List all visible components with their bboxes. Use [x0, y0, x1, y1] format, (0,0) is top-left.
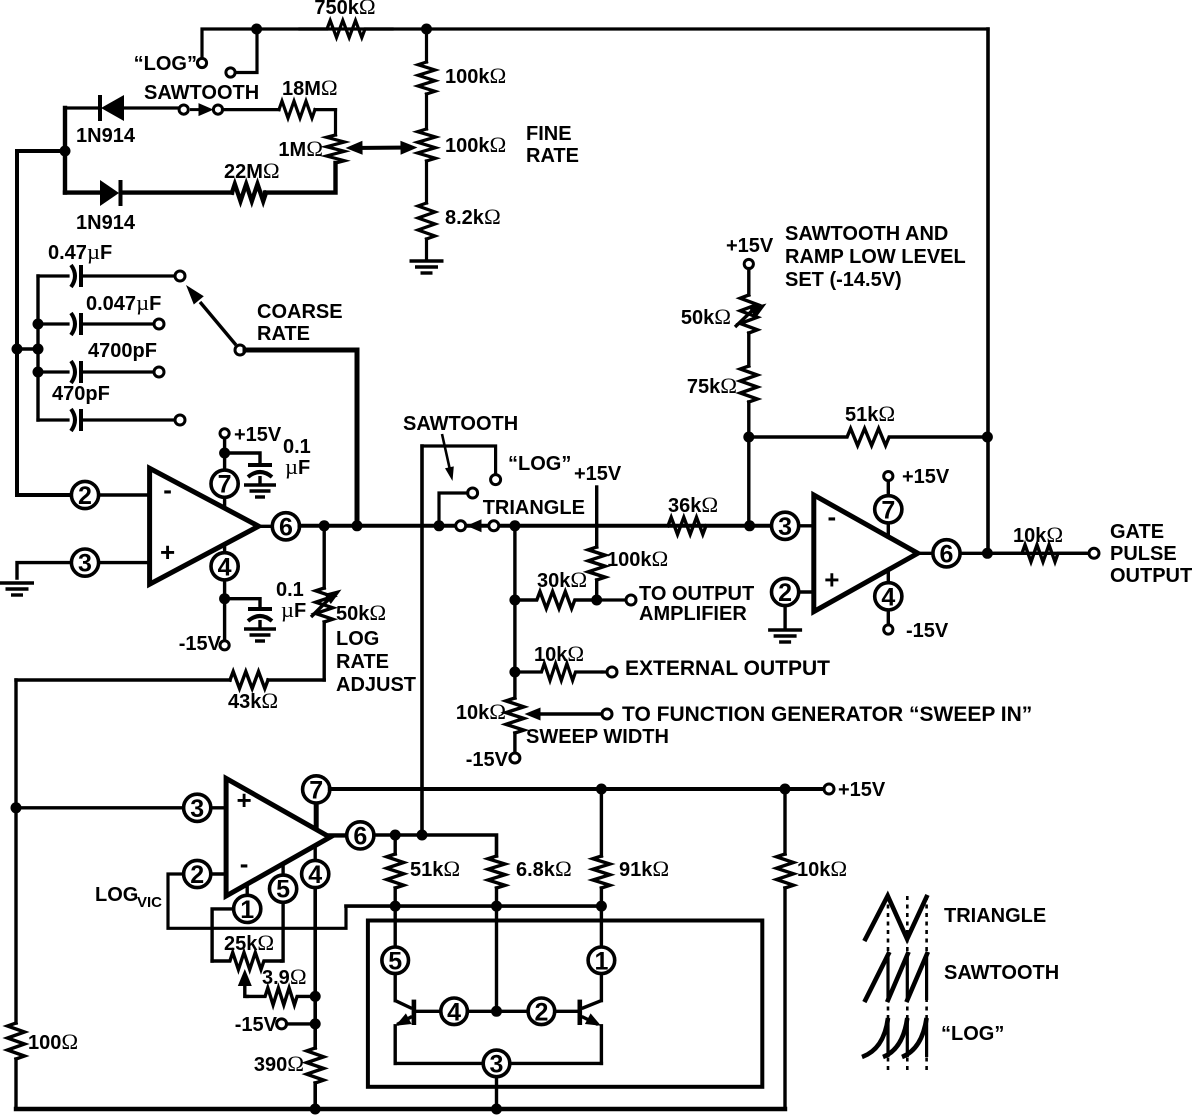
- svg-text:SWEEP WIDTH: SWEEP WIDTH: [526, 726, 669, 748]
- wire capacitor-bank bus vertical: [36, 276, 39, 420]
- wire 51k bottom into pin 5 of array: [394, 906, 397, 947]
- svg-text:10kΩ: 10kΩ: [534, 641, 584, 666]
- svg-text:100kΩ: 100kΩ: [445, 63, 506, 88]
- svg-text:18MΩ: 18MΩ: [282, 75, 338, 100]
- svg-text:ADJUST: ADJUST: [336, 674, 416, 696]
- svg-text:390Ω: 390Ω: [254, 1051, 304, 1076]
- resistor 6.8k&#937;: [488, 856, 505, 888]
- wire between 100k and fine-rate pot: [425, 94, 428, 129]
- capacitor 470pF: [38, 418, 68, 421]
- svg-text:6: 6: [353, 822, 367, 850]
- wire bottom rail: [16, 1107, 785, 1111]
- resistor 10k&#937; (right bank): [783, 789, 786, 854]
- svg-text:51kΩ: 51kΩ: [845, 401, 895, 426]
- svg-text:470pF: 470pF: [52, 383, 110, 405]
- svg-text:6.8kΩ: 6.8kΩ: [516, 856, 572, 881]
- node junction sawtooth switch tap: [434, 520, 445, 531]
- capacitor 0.47uF: [38, 274, 68, 277]
- node junction 51k row left: [743, 432, 754, 443]
- wire base row (y=906) from feedback riser to 91k bottom: [346, 904, 601, 908]
- svg-text:100Ω: 100Ω: [28, 1029, 78, 1054]
- svg-text:TO OUTPUT: TO OUTPUT: [639, 583, 754, 605]
- switch in sawtooth branch (two terminals with arrow): [179, 105, 188, 114]
- wire center column 6.8k down to base node: [495, 906, 498, 1011]
- wire from diode junction to far-left vertical down to op-amp U1 pin 2: [17, 151, 72, 495]
- node junction 91k top: [596, 784, 607, 795]
- switch terminal LOG (upper left): [197, 58, 206, 67]
- svg-text:SET (-14.5V): SET (-14.5V): [785, 269, 902, 291]
- svg-text:1N914: 1N914: [76, 212, 136, 234]
- terminal +15V (ramp low level set): [744, 259, 753, 268]
- node junction U1 V+ bypass: [219, 448, 230, 459]
- svg-text:-15V: -15V: [906, 620, 949, 642]
- svg-text:+15V: +15V: [902, 466, 950, 488]
- node junction 75k column joins main row: [744, 520, 755, 531]
- potentiometer 25k&#937; with wiper arrow: [212, 953, 282, 970]
- pin 7 of U1 with +15V terminal: [223, 438, 226, 509]
- wire +15V feed down to 100k: [595, 487, 598, 547]
- transistor array box: [368, 921, 762, 1087]
- node junction on far-left vertical + tie wire to capacitor bus: [12, 344, 23, 355]
- svg-text:-: -: [163, 474, 172, 504]
- op-amp U1 (integrator): [150, 468, 259, 584]
- node junction 50k log-rate-adjust tap: [319, 520, 330, 531]
- svg-text:RAMP LOW LEVEL: RAMP LOW LEVEL: [785, 246, 966, 268]
- svg-text:-15V: -15V: [466, 749, 509, 771]
- svg-text:SAWTOOTH: SAWTOOTH: [144, 82, 259, 104]
- svg-text:7: 7: [309, 776, 323, 804]
- node junctions on capacitor bus: [33, 319, 44, 330]
- terminal GATE PULSE OUTPUT: [1089, 548, 1099, 558]
- svg-text:6: 6: [940, 540, 954, 568]
- node junction external-output row: [509, 667, 520, 678]
- resistor 51k&#937; (U3 output): [394, 835, 397, 854]
- waveform SAWTOOTH symbol: [865, 954, 888, 1000]
- svg-text:RATE: RATE: [257, 323, 310, 345]
- svg-text:+15V: +15V: [234, 424, 282, 446]
- wire right rail vertical (top corner to gate output node): [986, 29, 990, 553]
- wire 8.2k to ground: [425, 239, 428, 259]
- wire fine-rate column top: [425, 29, 428, 62]
- ground (fine-rate column): [410, 259, 444, 262]
- svg-text:AMPLIFIER: AMPLIFIER: [639, 603, 747, 625]
- node junction 51k row right: [982, 432, 993, 443]
- node junction 51k top (output row): [390, 830, 401, 841]
- node junction 390 ohm bottom: [310, 1104, 321, 1115]
- pin 6 of U3 (output): [330, 833, 347, 837]
- svg-text:4700pF: 4700pF: [88, 340, 157, 362]
- svg-text:100kΩ: 100kΩ: [607, 546, 668, 571]
- node junction 6.8k bottom: [491, 901, 502, 912]
- svg-text:30kΩ: 30kΩ: [537, 567, 587, 592]
- waveform LOG symbol: [862, 1018, 888, 1057]
- pin 4 of U2 with -15V terminal: [887, 570, 890, 625]
- pin 1 of U3 with wire to 25k left end: [245, 884, 248, 896]
- svg-text:OUTPUT: OUTPUT: [1110, 565, 1192, 587]
- svg-text:50kΩ: 50kΩ: [336, 600, 386, 625]
- ground (U1 pin 3): [0, 581, 34, 584]
- svg-text:43kΩ: 43kΩ: [228, 688, 278, 713]
- resistor 100k&#937; (upper, fine-rate column): [418, 62, 435, 94]
- node junction 30k row: [509, 595, 520, 606]
- terminal -15V (U3): [277, 1019, 287, 1029]
- node junction base row center: [491, 1006, 502, 1017]
- pin 3 of U2: [772, 512, 799, 539]
- resistor 18M&#937;: [223, 108, 280, 111]
- switch wiper on main row (triangle selector, two terminals + left arrow): [467, 524, 489, 527]
- wire U2 output to gate pulse resistor: [960, 552, 1089, 555]
- wire far-left vertical (43k row down to bottom rail): [14, 680, 17, 1023]
- svg-text:1MΩ: 1MΩ: [278, 136, 323, 161]
- pin 3 of U3: [184, 794, 211, 821]
- pin 1 of transistor array: [588, 947, 615, 974]
- svg-text:-15V: -15V: [235, 1014, 278, 1036]
- svg-text:10kΩ: 10kΩ: [797, 856, 847, 881]
- svg-text:3: 3: [78, 550, 92, 578]
- node junction 91k bottom: [596, 901, 607, 912]
- svg-text:0.47µF: 0.47µF: [48, 239, 112, 264]
- svg-text:+: +: [824, 564, 839, 594]
- rheostat 50k&#937; (vertical with diagonal arrow): [747, 269, 750, 295]
- node junction selector vertical lands on output row: [417, 830, 428, 841]
- svg-text:“LOG”: “LOG”: [134, 53, 197, 75]
- pin 4 of transistor array (Q1 base): [416, 1010, 441, 1013]
- svg-text:COARSE: COARSE: [257, 301, 343, 323]
- pin 6 of U1 (output): [259, 525, 273, 528]
- node junction -15V / pin4 column: [310, 1018, 321, 1029]
- potentiometer 1M&#937; (vertical): [327, 135, 345, 163]
- svg-text:TRIANGLE: TRIANGLE: [483, 497, 585, 519]
- wire U3 output row to 6.8k drop: [374, 835, 497, 856]
- svg-text:2: 2: [534, 998, 548, 1026]
- wire base row segments: [467, 1010, 528, 1013]
- wire main node row from U1 output to U2 pin 3: [300, 524, 772, 528]
- svg-text:RATE: RATE: [526, 145, 579, 167]
- resistor 51k&#937; (feedback to gate rail): [749, 429, 988, 446]
- svg-text:RATE: RATE: [336, 651, 389, 673]
- svg-text:5: 5: [388, 947, 402, 975]
- svg-text:+: +: [160, 537, 175, 567]
- wire + terminal external output: [602, 670, 607, 673]
- capacitor 0.047uF: [38, 322, 68, 325]
- capacitor 0.1uF bypass (top) with ground: [225, 453, 260, 464]
- node junction top of fine-rate column: [421, 24, 432, 35]
- wire top rail from LOG switch corner to top-right corner: [202, 29, 988, 63]
- svg-text:100kΩ: 100kΩ: [445, 132, 506, 157]
- svg-text:75kΩ: 75kΩ: [687, 373, 737, 398]
- resistor 43k&#937;: [16, 678, 230, 681]
- waveform TRIANGLE symbol: [865, 896, 926, 939]
- wire 100k to 30k node: [595, 580, 598, 600]
- svg-text:2: 2: [190, 861, 204, 889]
- svg-text:1: 1: [594, 947, 608, 975]
- svg-text:50kΩ: 50kΩ: [681, 304, 731, 329]
- svg-text:+: +: [237, 785, 252, 815]
- svg-text:1: 1: [240, 896, 254, 924]
- svg-text:GATE: GATE: [1110, 521, 1164, 543]
- svg-text:25kΩ: 25kΩ: [224, 930, 274, 955]
- pin 5 of U3 with wire to 25k right end: [281, 863, 284, 876]
- svg-text:7: 7: [218, 471, 232, 499]
- wire 1M pot bottom to 22M resistor: [265, 163, 336, 193]
- wire 50k to 75k: [747, 333, 750, 366]
- pin 2 of transistor array (Q2 base): [528, 998, 555, 1025]
- pin 5 of transistor array: [382, 947, 409, 974]
- pin 7 of U3 with +15V rail to the right: [314, 802, 319, 829]
- transistor Q1 (left, NPN): [394, 974, 397, 1001]
- pin 2 of U3 with feedback wire: [184, 860, 211, 887]
- svg-text:3: 3: [190, 795, 204, 823]
- svg-text:TRIANGLE: TRIANGLE: [944, 905, 1046, 927]
- svg-text:1N914: 1N914: [76, 125, 136, 147]
- pin 2 of U1 (inverting input): [99, 493, 150, 496]
- svg-text:µF: µF: [285, 454, 310, 479]
- svg-text:6: 6: [279, 513, 293, 541]
- svg-text:µF: µF: [281, 597, 306, 622]
- capacitor 0.1uF bypass (bottom) with ground: [225, 599, 260, 608]
- svg-text:10kΩ: 10kΩ: [456, 699, 506, 724]
- dashed period markers (legend): [887, 896, 890, 1072]
- resistor 100&#937; (far-left): [8, 1023, 25, 1059]
- node junction pin3 bottom: [491, 1104, 502, 1115]
- svg-text:750kΩ: 750kΩ: [314, 0, 375, 19]
- wire thick from coarse-rate wiper to main node (L shape): [245, 350, 357, 526]
- wire selector top horizontal to LOG terminal: [422, 446, 496, 475]
- svg-text:SAWTOOTH AND: SAWTOOTH AND: [785, 223, 948, 245]
- svg-text:FINE: FINE: [526, 123, 572, 145]
- resistor 22M&#937;: [123, 190, 233, 194]
- svg-text:0.047µF: 0.047µF: [86, 290, 161, 315]
- node junction far-left to U3 pin 3: [11, 802, 22, 813]
- resistor 8.2k&#937;: [418, 203, 435, 239]
- svg-text:+15V: +15V: [726, 235, 774, 257]
- svg-text:22MΩ: 22MΩ: [224, 158, 280, 183]
- potentiometer 10k&#937; SWEEP WIDTH: [506, 698, 524, 733]
- svg-text:91kΩ: 91kΩ: [619, 856, 669, 881]
- wire to U3 pin 3: [16, 806, 183, 809]
- resistor 75k&#937;: [740, 366, 757, 402]
- switch terminal SAWTOOTH (selector) with L wire to main row: [468, 488, 478, 498]
- resistor 91k&#937;: [600, 789, 603, 856]
- svg-text:-: -: [827, 501, 836, 531]
- svg-text:2: 2: [778, 579, 792, 607]
- svg-text:VIC: VIC: [137, 894, 162, 911]
- wire 75k down to main row: [747, 402, 750, 526]
- transistor Q2 (right, NPN): [577, 1000, 582, 1025]
- capacitor 4700pF: [38, 370, 68, 373]
- resistor 30k&#937;: [515, 592, 597, 609]
- svg-text:3: 3: [490, 1050, 504, 1078]
- svg-text:4: 4: [881, 583, 895, 611]
- svg-text:-15V: -15V: [179, 633, 222, 655]
- node junction sweep column tap: [509, 520, 520, 531]
- wire rheostat to 43k row: [323, 622, 326, 680]
- wire +15V rail (U3 pin7 to +15V terminal): [330, 787, 824, 791]
- svg-text:“LOG”: “LOG”: [508, 453, 571, 475]
- node junction 100k/30k: [591, 595, 602, 606]
- potentiometer FINE RATE 100k&#937;: [418, 129, 436, 161]
- resistor 390&#937;: [307, 1048, 324, 1083]
- wire sweep pot to -15V terminal: [513, 733, 516, 753]
- diode D1 1N914 (top, pointing left): [65, 106, 99, 109]
- svg-text:EXTERNAL OUTPUT: EXTERNAL OUTPUT: [625, 657, 830, 680]
- svg-text:3: 3: [778, 513, 792, 541]
- resistor 10k&#937; (external output): [515, 664, 602, 681]
- wire sweep column vertical: [513, 526, 516, 698]
- pin 7 of U2 with +15V terminal: [887, 481, 890, 537]
- resistor 36k&#937;: [520, 524, 668, 527]
- resistor 3.9&#937;: [247, 988, 315, 1005]
- svg-text:PULSE: PULSE: [1110, 543, 1177, 565]
- svg-text:51kΩ: 51kΩ: [410, 856, 460, 881]
- svg-text:7: 7: [881, 496, 895, 524]
- rheostat 50k&#937; LOG RATE ADJUST: [323, 526, 326, 588]
- op-amp U3 (log amp): [226, 778, 330, 896]
- pin 6 of U2 (output): [918, 552, 933, 555]
- pin 3 of U1 (non-inverting input): [71, 549, 98, 576]
- wire left vertical joining the two diodes: [63, 108, 67, 193]
- pin 2 of U2 with ground: [799, 590, 814, 593]
- wire to output amplifier terminal: [597, 598, 626, 601]
- resistor 10k&#937; (gate pulse): [995, 545, 1085, 562]
- svg-text:4: 4: [447, 998, 461, 1026]
- wire pin 3 down to bottom rail: [495, 1077, 498, 1109]
- terminal +15V (bottom rail area): [824, 784, 834, 794]
- svg-text:-: -: [240, 849, 249, 879]
- svg-text:LOG: LOG: [336, 628, 379, 650]
- node junction 10k top: [780, 784, 791, 795]
- node junction at LOG branch on top rail: [251, 24, 262, 35]
- node junction gate output / right rail: [982, 548, 993, 559]
- node junction 51k bottom: [390, 901, 401, 912]
- svg-text:“LOG”: “LOG”: [941, 1023, 1004, 1045]
- wire ground stub to U1 pin 3: [17, 563, 72, 578]
- pin 3 of transistor array: [483, 1050, 510, 1077]
- node junction U1 V- bypass: [219, 593, 230, 604]
- resistor 100k&#937; (to output amp): [588, 547, 605, 580]
- svg-text:5: 5: [276, 876, 290, 904]
- node junction coarse-rate wire lands: [352, 520, 363, 531]
- node junction 3.9 ohm / pin4 column: [310, 991, 321, 1002]
- svg-text:+15V: +15V: [574, 463, 622, 485]
- diode D2 1N914 (bottom, pointing right): [65, 190, 100, 194]
- svg-text:8.2kΩ: 8.2kΩ: [445, 204, 501, 229]
- selector switch COARSE RATE (wiper arrow): [200, 302, 236, 345]
- wire long vertical from selector top to U3 output row: [420, 446, 424, 835]
- switch contact terminal + wire up to top rail: [236, 29, 258, 73]
- wiper link between 1M pot and fine-rate 100k pot (double arrow): [352, 146, 412, 151]
- pin 4 of U3 column down to bottom rail: [314, 845, 317, 860]
- svg-text:2: 2: [78, 482, 92, 510]
- wire emitter bottom row: [395, 1062, 483, 1065]
- wire pot to 8.2k: [425, 161, 428, 203]
- node junction on diode branch: [60, 146, 71, 157]
- svg-text:TO FUNCTION GENERATOR “SWEEP I: TO FUNCTION GENERATOR “SWEEP IN”: [622, 703, 1032, 726]
- svg-text:LOG: LOG: [95, 884, 138, 906]
- pin 4 of U1 with -15V terminal: [223, 545, 226, 642]
- svg-text:4: 4: [308, 861, 322, 889]
- svg-text:36kΩ: 36kΩ: [668, 492, 718, 517]
- svg-text:3.9Ω: 3.9Ω: [262, 964, 307, 989]
- op-amp U2 (gate comparator): [814, 495, 918, 612]
- svg-text:10kΩ: 10kΩ: [1013, 522, 1063, 547]
- svg-text:+15V: +15V: [838, 779, 886, 801]
- resistor 750k&#937; (in top rail): [300, 21, 392, 38]
- wiper arrow of sweep-width pot from terminal: [536, 712, 602, 715]
- svg-text:SAWTOOTH: SAWTOOTH: [403, 413, 518, 435]
- svg-text:4: 4: [218, 553, 232, 581]
- wire 18M to 1M pot top: [334, 110, 337, 135]
- svg-text:SAWTOOTH: SAWTOOTH: [944, 962, 1059, 984]
